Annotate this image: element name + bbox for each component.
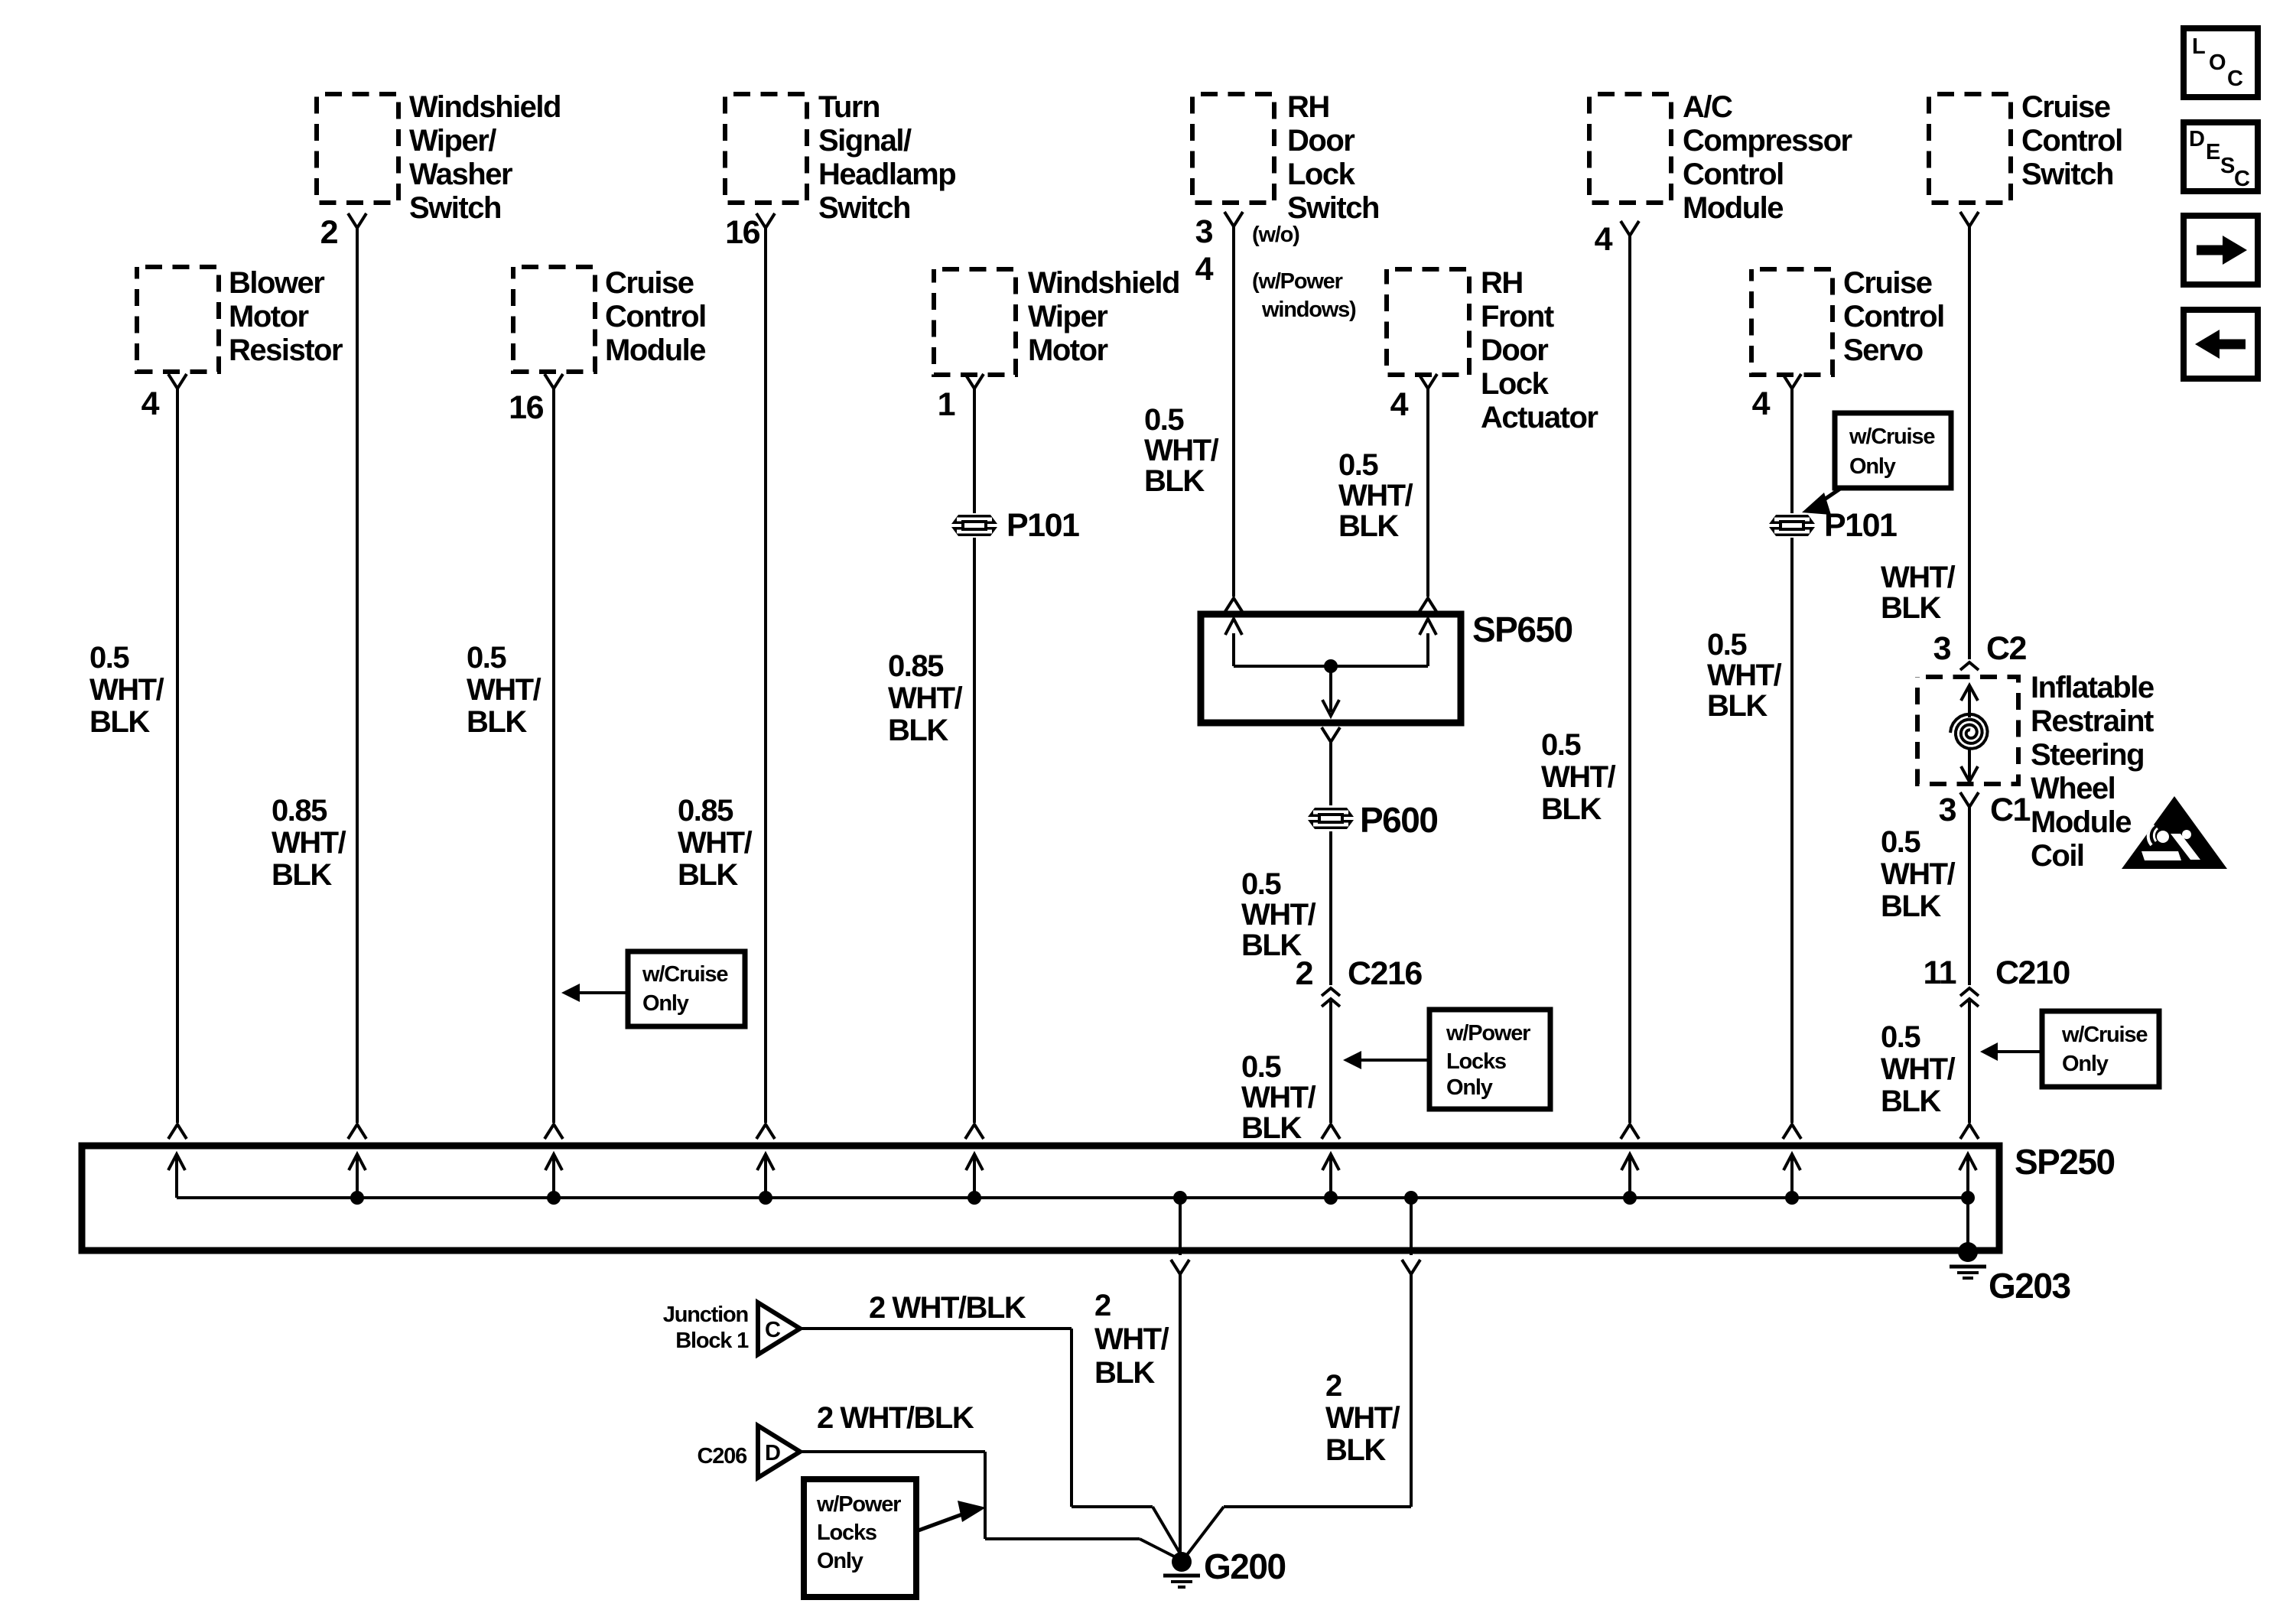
legend box DESC: [2184, 122, 2258, 191]
SP250 internal bus line: [177, 1196, 1968, 1199]
svg-text:WHT/: WHT/: [678, 826, 753, 860]
component box: Blower Motor Resistor: [137, 267, 219, 372]
callout w/Power Locks Only (C216 wire): [1429, 1010, 1550, 1109]
SP250 internal arrow at x=1001: [764, 1156, 767, 1198]
svg-text:SP650: SP650: [1472, 610, 1572, 649]
svg-text:WHT/: WHT/: [1881, 1052, 1956, 1086]
grommet P101 (wiper motor wire): [951, 515, 997, 524]
SP250 to G203: [1966, 1198, 1969, 1248]
SP250 internal arrow at x=1274: [973, 1156, 976, 1198]
svg-text:Control: Control: [1683, 158, 1784, 191]
svg-text:WHT/: WHT/: [1881, 561, 1956, 594]
svg-text:4: 4: [1595, 221, 1613, 258]
svg-text:Cruise: Cruise: [2021, 90, 2110, 124]
svg-text:C: C: [2227, 67, 2243, 91]
svg-text:C1: C1: [1990, 792, 2031, 828]
callout w/Cruise Only (C210 wire): [2042, 1011, 2159, 1087]
component box: A/C Compressor Control Module: [1589, 94, 1671, 203]
svg-text:Motor: Motor: [1028, 333, 1108, 367]
SP250 internal arrow at x=231: [175, 1156, 178, 1198]
svg-text:(w/o): (w/o): [1252, 223, 1299, 247]
svg-text:Only: Only: [642, 991, 689, 1016]
component box: Cruise Control Module: [513, 267, 595, 372]
svg-text:C216: C216: [1348, 955, 1422, 992]
svg-text:BLK: BLK: [272, 858, 332, 892]
SP650 junction dot: [1324, 659, 1338, 673]
SP650 internal bus line: [1234, 665, 1428, 668]
svg-text:Compressor: Compressor: [1683, 124, 1852, 158]
svg-text:C: C: [2234, 167, 2250, 191]
svg-text:2: 2: [1325, 1369, 1342, 1403]
SP650 internal arrow left: [1232, 633, 1235, 666]
svg-text:D: D: [765, 1441, 780, 1465]
svg-text:Steering: Steering: [2031, 738, 2144, 772]
svg-text:0.5: 0.5: [467, 641, 506, 675]
component box: Windshield Wiper/Washer Switch: [317, 94, 398, 203]
SP250 internal arrow at x=1740: [1329, 1156, 1332, 1198]
grommet P101 (servo wire): [1769, 515, 1815, 524]
svg-text:P600: P600: [1360, 800, 1437, 840]
callout arrow (C210 wire): [1998, 1050, 2042, 1053]
svg-text:WHT/: WHT/: [1144, 434, 1219, 467]
svg-text:WHT/: WHT/: [89, 673, 164, 707]
SP250 internal arrow at x=2131: [1628, 1156, 1631, 1198]
svg-text:Module: Module: [605, 333, 705, 367]
coil internal up arrow: [1968, 687, 1971, 717]
svg-text:BLK: BLK: [1707, 689, 1768, 723]
svg-text:0.85: 0.85: [888, 649, 944, 683]
svg-text:O: O: [2209, 50, 2226, 75]
svg-text:0.5: 0.5: [1881, 1020, 1920, 1054]
svg-text:1: 1: [938, 386, 955, 423]
svg-text:WHT/: WHT/: [1094, 1322, 1169, 1356]
svg-text:BLK: BLK: [467, 705, 527, 739]
SP250 junction dot at x=1740: [1324, 1191, 1338, 1205]
callout w/Power Locks Only (C206 wire): [804, 1479, 916, 1597]
wire: C1 to C210: [1968, 807, 1971, 985]
coil internal down arrow: [1968, 748, 1971, 779]
svg-text:Block 1: Block 1: [675, 1329, 749, 1353]
svg-text:WHT/: WHT/: [467, 673, 541, 707]
component box: Cruise Control Switch: [1929, 94, 2011, 203]
svg-text:0.5: 0.5: [1241, 867, 1281, 901]
svg-text:BLK: BLK: [1338, 509, 1399, 543]
svg-text:Control: Control: [2021, 124, 2122, 158]
svg-text:C2: C2: [1986, 630, 2027, 667]
SP250 junction dot at x=724: [547, 1191, 561, 1205]
SP250 internal arrow at x=2343: [1790, 1156, 1794, 1198]
svg-text:Locks: Locks: [817, 1521, 876, 1545]
svg-text:BLK: BLK: [678, 858, 738, 892]
component box: RH Door Lock Switch: [1192, 94, 1274, 203]
callout arrow (servo P101): [1819, 489, 1840, 503]
legend box right arrow: [2184, 216, 2258, 285]
callout w/Cruise Only (cruise control module wire): [628, 951, 745, 1026]
svg-text:BLK: BLK: [1325, 1433, 1386, 1467]
wire: SP650 to P600: [1322, 727, 1340, 742]
component box: Turn Signal/Headlamp Switch: [725, 94, 807, 203]
svg-text:0.5: 0.5: [89, 641, 129, 675]
svg-text:Cruise: Cruise: [1843, 266, 1932, 300]
svg-text:0.5: 0.5: [1881, 825, 1920, 859]
svg-text:A/C: A/C: [1683, 90, 1732, 124]
component box: Windshield Wiper Motor: [934, 269, 1016, 375]
wire: C216 to SP250: [1329, 1001, 1332, 1123]
svg-text:16: 16: [725, 214, 759, 251]
wire: C206 D to G200: [800, 1450, 985, 1453]
svg-text:Wheel: Wheel: [2031, 772, 2115, 805]
connector C1 fork: [1960, 792, 1979, 807]
svg-text:Lock: Lock: [1287, 158, 1356, 191]
wire: Junction Block 1 C to G200: [800, 1327, 1072, 1330]
wire: Windshield Wiper/Washer Switch pin 2 to SP250: [348, 213, 366, 228]
wire: RH Door Lock Switch pins 3,4 to SP650: [1224, 212, 1243, 226]
callout w/Cruise Only (servo P101): [1835, 413, 1951, 488]
SP650 internal arrow right: [1426, 633, 1429, 666]
SP650 internal down arrow: [1329, 666, 1332, 712]
wire: RH Front Door Lock Actuator pin 4 to SP650: [1419, 374, 1437, 389]
svg-text:BLK: BLK: [1881, 591, 1941, 625]
callout arrow (cruise control module wire): [580, 991, 628, 994]
svg-text:2: 2: [320, 214, 338, 251]
svg-text:Restraint: Restraint: [2031, 704, 2154, 738]
svg-text:4: 4: [141, 385, 160, 422]
svg-text:C210: C210: [1995, 955, 2070, 991]
svg-text:4: 4: [1195, 251, 1214, 288]
svg-text:Locks: Locks: [1446, 1049, 1506, 1074]
svg-text:BLK: BLK: [1094, 1356, 1155, 1390]
component box: RH Front Door Lock Actuator: [1387, 269, 1469, 375]
callout arrow (C216 wire): [1361, 1059, 1429, 1062]
svg-text:Washer: Washer: [409, 158, 512, 191]
svg-text:Front: Front: [1481, 300, 1554, 333]
svg-text:WHT/: WHT/: [1707, 659, 1782, 692]
svg-text:0.5: 0.5: [1241, 1050, 1281, 1084]
svg-text:Junction: Junction: [663, 1303, 748, 1327]
wire: P101 to SP250 (wiper motor): [973, 538, 976, 1123]
svg-text:windows): windows): [1261, 298, 1356, 322]
svg-text:S: S: [2220, 154, 2235, 178]
svg-text:WHT/: WHT/: [1338, 479, 1413, 512]
svg-text:2 WHT/BLK: 2 WHT/BLK: [817, 1401, 974, 1435]
svg-text:Switch: Switch: [818, 191, 910, 225]
connector C210 chevrons: [1960, 988, 1979, 996]
svg-text:3: 3: [1939, 792, 1956, 828]
svg-text:11: 11: [1924, 955, 1956, 991]
grommet P600: [1308, 808, 1354, 817]
svg-text:Motor: Motor: [229, 300, 309, 333]
svg-text:Inflatable: Inflatable: [2031, 671, 2154, 704]
ground G203: [1958, 1242, 1978, 1262]
svg-text:0.85: 0.85: [678, 794, 733, 828]
svg-text:P101: P101: [1007, 507, 1079, 544]
svg-text:BLK: BLK: [1144, 464, 1205, 498]
svg-text:Control: Control: [605, 300, 706, 333]
svg-text:0.5: 0.5: [1144, 403, 1184, 437]
svg-text:Only: Only: [2062, 1052, 2109, 1076]
clockspring coil spiral: [1950, 714, 1988, 749]
svg-text:C206: C206: [697, 1444, 747, 1469]
svg-text:2: 2: [1094, 1289, 1111, 1322]
svg-text:Actuator: Actuator: [1481, 401, 1598, 434]
svg-text:Coil: Coil: [2031, 839, 2084, 873]
wire: P101 to SP250 (servo): [1790, 538, 1794, 1123]
svg-text:0.85: 0.85: [272, 794, 327, 828]
component box: Cruise Control Servo: [1751, 269, 1833, 375]
svg-text:BLK: BLK: [1541, 792, 1602, 826]
svg-text:Control: Control: [1843, 300, 1944, 333]
svg-text:Only: Only: [1446, 1075, 1493, 1100]
SP250 junction dot at x=467: [350, 1191, 364, 1205]
SP250 junction dot at x=2131: [1623, 1191, 1637, 1205]
wire: Turn Signal/Headlamp Switch pin 16 to SP250: [756, 213, 775, 228]
legend box LOC: [2184, 28, 2258, 97]
connector C216 chevrons: [1322, 988, 1340, 996]
svg-text:WHT/: WHT/: [272, 826, 346, 860]
svg-text:Only: Only: [817, 1549, 863, 1573]
ground bus SP250: [82, 1146, 1999, 1251]
wire: P600 to C216: [1329, 831, 1332, 985]
svg-text:0.5: 0.5: [1707, 628, 1747, 662]
component box: Inflatable Restraint Steering Wheel Module Coil: [1917, 677, 2018, 784]
wire: C210 to SP250: [1968, 1001, 1971, 1123]
connector triangle C (Junction Block 1): [758, 1303, 800, 1355]
svg-text:4: 4: [1752, 385, 1771, 422]
SP250 junction dot at x=1274: [968, 1191, 981, 1205]
splice block SP650: [1201, 614, 1461, 723]
svg-text:P101: P101: [1824, 507, 1897, 544]
wire: SP250 to G200 (left drop): [1179, 1198, 1182, 1255]
SP250 internal arrow at x=467: [356, 1156, 359, 1198]
svg-text:Windshield: Windshield: [409, 90, 561, 124]
wire: Windshield Wiper Motor pin 1 to P101: [965, 374, 984, 389]
svg-text:w/Cruise: w/Cruise: [642, 962, 728, 987]
svg-text:Windshield: Windshield: [1028, 266, 1179, 300]
svg-text:Switch: Switch: [1287, 191, 1379, 225]
svg-text:2 WHT/BLK: 2 WHT/BLK: [869, 1291, 1026, 1325]
SP250 internal arrow at x=724: [552, 1156, 555, 1198]
svg-text:2: 2: [1296, 955, 1313, 992]
callout arrow (C206 wire): [916, 1512, 968, 1531]
wire: A/C Compressor Control Module pin 4 to SP250: [1621, 221, 1639, 236]
svg-text:BLK: BLK: [89, 705, 150, 739]
svg-text:0.5: 0.5: [1541, 728, 1581, 762]
svg-text:Module: Module: [2031, 805, 2131, 839]
svg-text:BLK: BLK: [1881, 1085, 1941, 1118]
SP250 junction dot at x=1845: [1404, 1191, 1418, 1205]
svg-text:G200: G200: [1204, 1547, 1286, 1586]
svg-text:16: 16: [509, 389, 543, 426]
svg-text:Headlamp: Headlamp: [818, 158, 955, 191]
svg-text:Turn: Turn: [818, 90, 880, 124]
SP250 junction dot at x=1001: [759, 1191, 772, 1205]
svg-text:Switch: Switch: [409, 191, 501, 225]
svg-text:D: D: [2189, 127, 2204, 151]
legend box left arrow: [2184, 310, 2258, 379]
ground G200: [1172, 1552, 1192, 1572]
svg-text:WHT/: WHT/: [888, 681, 963, 715]
svg-text:BLK: BLK: [888, 714, 948, 747]
svg-text:Servo: Servo: [1843, 333, 1923, 367]
svg-text:SP250: SP250: [2015, 1142, 2115, 1182]
svg-text:G203: G203: [1989, 1266, 2070, 1306]
svg-text:Signal/: Signal/: [818, 124, 912, 158]
wire: Cruise Control Module pin 16 to SP250: [545, 374, 563, 389]
svg-text:Cruise: Cruise: [605, 266, 694, 300]
svg-text:Door: Door: [1481, 333, 1548, 367]
svg-text:WHT/: WHT/: [1241, 898, 1316, 932]
svg-text:w/Power: w/Power: [1446, 1021, 1530, 1046]
SP250 junction dot at x=1543: [1173, 1191, 1187, 1205]
svg-text:WHT/: WHT/: [1541, 760, 1616, 794]
svg-text:L: L: [2192, 34, 2205, 59]
svg-text:WHT/: WHT/: [1241, 1081, 1316, 1114]
wire: Blower Motor Resistor pin 4 to SP250: [168, 374, 187, 389]
svg-text:BLK: BLK: [1881, 890, 1941, 923]
svg-text:Wiper/: Wiper/: [409, 124, 496, 158]
svg-text:E: E: [2206, 140, 2220, 164]
svg-text:Switch: Switch: [2021, 158, 2113, 191]
svg-text:0.5: 0.5: [1338, 448, 1378, 482]
wire: Cruise Control Servo pin 4 to P101: [1783, 374, 1801, 389]
svg-text:Only: Only: [1849, 454, 1896, 479]
SP250 junction dot at x=2573: [1961, 1191, 1975, 1205]
svg-text:Lock: Lock: [1481, 367, 1550, 401]
svg-text:3: 3: [1933, 630, 1951, 667]
svg-text:Module: Module: [1683, 191, 1783, 225]
svg-text:Resistor: Resistor: [229, 333, 343, 367]
svg-text:C: C: [765, 1318, 781, 1342]
svg-text:RH: RH: [1287, 90, 1329, 124]
connector triangle D (C206): [758, 1426, 800, 1478]
svg-text:Wiper: Wiper: [1028, 300, 1107, 333]
svg-text:4: 4: [1390, 386, 1409, 423]
svg-text:3: 3: [1195, 213, 1213, 250]
svg-text:RH: RH: [1481, 266, 1523, 300]
SP250 internal arrow at x=2573: [1966, 1156, 1969, 1198]
svg-text:Blower: Blower: [229, 266, 324, 300]
svg-text:BLK: BLK: [1241, 1111, 1302, 1145]
svg-text:Door: Door: [1287, 124, 1355, 158]
svg-text:WHT/: WHT/: [1881, 857, 1956, 891]
svg-text:w/Power: w/Power: [816, 1492, 901, 1517]
svg-text:(w/Power: (w/Power: [1252, 269, 1343, 294]
SP250 junction dot at x=2343: [1785, 1191, 1799, 1205]
svg-text:w/Cruise: w/Cruise: [1849, 424, 1935, 449]
svg-text:w/Cruise: w/Cruise: [2061, 1023, 2148, 1047]
svg-text:BLK: BLK: [1241, 929, 1302, 962]
wire: SP250 to G200 (right drop): [1410, 1198, 1413, 1255]
wire: Cruise Control Switch to C2: [1960, 212, 1979, 226]
svg-text:WHT/: WHT/: [1325, 1401, 1400, 1435]
